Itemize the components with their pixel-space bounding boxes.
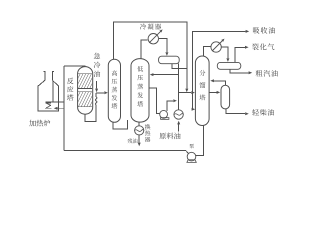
pump P2 circle <box>160 110 168 118</box>
wire HP bottoms to LP tower <box>113 120 127 129</box>
furnace coil inlet line <box>58 107 64 109</box>
label 轻柴油 <box>252 109 259 116</box>
wire furnace outlet riser <box>63 66 65 151</box>
pump P1 circle <box>187 152 196 161</box>
arrow into stripper <box>217 91 221 94</box>
heat exchanger HX2 circle <box>174 110 183 119</box>
wire condenser to reflux drum <box>159 39 167 53</box>
fractionation tower <box>195 56 209 126</box>
label 加热炉 <box>29 120 36 127</box>
wire pump2 discharge <box>167 101 173 111</box>
wire feed header <box>178 92 191 94</box>
wire raw oil feed <box>178 124 180 131</box>
squiggle on riser <box>95 97 97 105</box>
heat exchanger HX1 circle <box>135 126 144 135</box>
wire LP side outlet to pump <box>149 88 160 114</box>
stripper vessel <box>221 85 230 109</box>
arrow light diesel <box>245 112 249 115</box>
furnace internal stack pipe <box>52 80 54 102</box>
furnace coil zigzag <box>46 103 52 108</box>
wire residue out <box>138 135 140 142</box>
label 粗汽油 <box>256 70 263 77</box>
wire reactor bottoms loop <box>85 105 96 122</box>
wire reflux to LP tower <box>153 74 178 76</box>
arrow into furnace coil <box>54 107 58 110</box>
arrow header into fractionator <box>191 91 195 94</box>
wire recycle line <box>64 150 189 153</box>
wire drum1 right down to HX <box>177 64 179 110</box>
reflux drum 2 <box>217 62 241 69</box>
wire crude gasoline <box>230 69 248 73</box>
wire stripper feed <box>209 91 217 93</box>
wire fractionator bottoms to pump <box>196 125 204 155</box>
wire LP overhead to condenser <box>141 40 148 58</box>
label 吸收油 <box>253 27 259 33</box>
arrow crude gasoline <box>249 71 253 74</box>
wire light diesel <box>226 109 245 114</box>
wire absorption oil top line <box>192 31 245 109</box>
label 泵 <box>189 144 194 149</box>
arrow into drum1 <box>165 52 168 56</box>
arrow cooler diagonal <box>221 39 224 42</box>
label 急冷油 <box>94 53 100 59</box>
label 换热器 <box>145 124 150 129</box>
arrow into reactor top <box>84 66 87 70</box>
wire drum1 bottoms <box>172 64 187 69</box>
arrow cracked gas <box>245 46 249 49</box>
label 冷凝器 <box>140 23 146 29</box>
condenser circle <box>148 34 158 44</box>
label 分馏塔 <box>199 70 205 76</box>
label 残油 <box>127 139 132 144</box>
reflux drum 1 <box>159 56 180 64</box>
arrow into HP evaporator <box>104 91 108 94</box>
wire effluent to HP evaporator <box>96 92 104 94</box>
arrow stripper overhead into fractionator <box>210 79 214 82</box>
furnace body (bottle) <box>38 71 58 111</box>
arrow pump2 discharge joins feed line <box>173 99 177 102</box>
reactor vessel <box>78 67 93 115</box>
arrow quench down <box>95 89 98 93</box>
cooler circle <box>211 42 221 52</box>
arrow into drum2 <box>226 58 229 62</box>
wire LP bottoms <box>138 122 140 126</box>
arrow absorption oil return into fractionator <box>191 108 194 110</box>
wire stripper overhead <box>214 81 226 85</box>
arrow HP overhead joins header <box>185 89 188 93</box>
reactor catalyst bed 2 <box>70 92 105 107</box>
label 原料油 <box>159 133 166 140</box>
arrow absorption oil <box>246 30 250 33</box>
arrow residue down <box>138 143 141 147</box>
wire quench oil line <box>96 81 98 89</box>
label 反应塔 <box>67 78 74 84</box>
furnace coil top line <box>45 101 64 103</box>
wire cracked gas line <box>235 47 245 62</box>
wire cooler to drum2 <box>222 47 228 58</box>
arrow into LP tower top <box>150 73 154 76</box>
label 高压蒸发塔 <box>112 70 117 76</box>
wire fractionator overhead <box>203 47 210 56</box>
arrow condenser diagonal <box>158 31 161 34</box>
wire HP overhead <box>114 22 187 88</box>
HP evaporation tower <box>108 59 120 122</box>
label 低压蒸发塔 <box>137 66 143 72</box>
label 裂化气 <box>252 44 259 51</box>
LP evaporation tower <box>131 59 149 123</box>
reactor catalyst bed 1 <box>70 74 105 89</box>
arrow feed into HX2 <box>177 121 180 125</box>
wire transfer line to reactor <box>64 65 85 68</box>
